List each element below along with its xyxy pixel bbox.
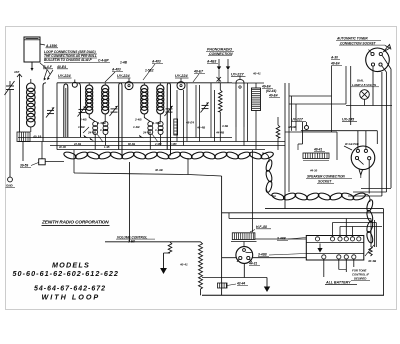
svg-text:40-4B: 40-4B [196,126,206,130]
svg-text:UY-224: UY-224 [175,74,188,78]
svg-text:1-4B: 1-4B [120,61,128,65]
svg-text:40-41: 40-41 [179,263,188,267]
svg-text:A-4B3: A-4B3 [206,60,216,64]
svg-text:44-4B: 44-4B [215,131,225,135]
svg-text:UY-224: UY-224 [58,74,71,78]
svg-text:48-41: 48-41 [313,148,322,152]
svg-text:1-4B: 1-4B [133,125,140,129]
svg-text:UY-227: UY-227 [231,73,244,77]
svg-text:40-19: 40-19 [32,135,41,139]
svg-text:1-48B: 1-48B [100,128,109,132]
svg-text:48-E4: 48-E4 [185,121,194,125]
svg-text:A-483: A-483 [111,68,121,72]
svg-text:BULLETIN TO CHASSIS 41-W-P: BULLETIN TO CHASSIS 41-W-P [44,58,93,62]
svg-text:WITH LOOP: WITH LOOP [42,293,101,302]
svg-text:40-1B: 40-1B [58,146,66,149]
svg-text:W-4-B-PHD: W-4-B-PHD [345,142,359,146]
svg-text:54-64-67-642-672: 54-64-67-642-672 [34,286,106,293]
svg-text:3-43B: 3-43B [258,253,267,257]
svg-text:A-1590: A-1590 [45,44,57,48]
svg-text:AUTOMATIC TUNER: AUTOMATIC TUNER [336,37,368,41]
svg-text:CONNECTION SOCKET: CONNECTION SOCKET [340,41,377,45]
svg-text:C-4-BP: C-4-BP [98,59,109,63]
svg-text:40-E4: 40-E4 [268,94,278,98]
svg-text:48-E4: 48-E4 [330,62,340,66]
svg-text:A-48B: A-48B [151,121,162,125]
svg-text:MODELS: MODELS [52,260,90,269]
svg-text:ALL BATTERY: ALL BATTERY [325,281,351,285]
svg-text:(62-44): (62-44) [266,89,276,93]
svg-text:2-E8: 2-E8 [127,239,135,243]
svg-text:A-30: A-30 [330,56,338,60]
svg-text:DESIRED: DESIRED [354,277,366,281]
svg-text:40-4B: 40-4B [367,259,377,263]
svg-text:48-E7: 48-E7 [193,70,204,74]
svg-text:A-483: A-483 [151,60,161,64]
svg-text:UX-245: UX-245 [342,118,355,122]
svg-text:DIAL: DIAL [357,79,364,83]
svg-text:1-4B: 1-4B [78,125,85,129]
svg-text:H.F.-88: H.F.-88 [256,225,267,229]
svg-text:49-E4: 49-E4 [261,85,271,89]
svg-text:SPEAKER CONNECTION: SPEAKER CONNECTION [307,175,345,179]
svg-text:UY-224: UY-224 [117,74,130,78]
svg-text:ZENITH RADIO CORPORATION: ZENITH RADIO CORPORATION [41,220,109,225]
svg-text:1-5E2: 1-5E2 [145,69,154,73]
svg-text:44-31: 44-31 [248,262,257,266]
svg-text:UY-227: UY-227 [291,118,304,122]
svg-text:A-48B: A-48B [96,121,107,125]
svg-text:50-60-61-62-602-612-622: 50-60-61-62-602-612-622 [13,269,119,278]
svg-text:2-4B: 2-4B [134,118,142,122]
svg-text:30-4B: 30-4B [155,168,163,172]
svg-text:24-4B: 24-4B [87,131,97,135]
svg-text:44-30: 44-30 [309,169,318,173]
svg-text:40-E4: 40-E4 [56,65,66,69]
svg-text:SOCKET: SOCKET [318,180,332,184]
svg-text:CONNECTION: CONNECTION [209,52,233,56]
svg-text:1-4B: 1-4B [104,146,110,149]
svg-text:1-48B: 1-48B [155,128,164,132]
svg-text:42-44: 42-44 [236,282,245,286]
svg-text:LAMP 2.5 VOLTS: LAMP 2.5 VOLTS [352,83,376,87]
svg-text:4-4B: 4-4B [221,124,228,128]
svg-text:3-44B: 3-44B [277,237,286,241]
svg-text:ANT: ANT [13,70,20,74]
svg-text:40-41: 40-41 [252,72,261,76]
svg-text:GND: GND [6,184,14,188]
svg-text:24-4B: 24-4B [142,131,152,135]
svg-text:39-59: 39-59 [20,164,28,168]
